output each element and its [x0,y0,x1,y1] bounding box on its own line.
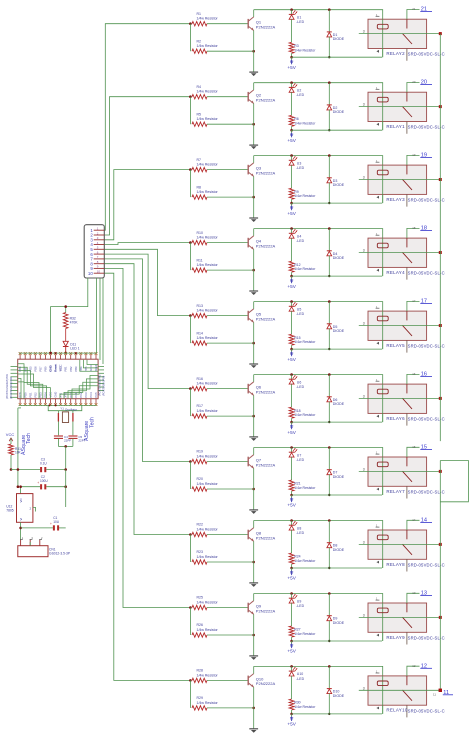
svg-text:3: 3 [363,394,365,398]
relay K1 coil [377,24,388,29]
ground ch5 [249,364,258,368]
relay K8 coil pin bottom tick [376,561,379,564]
relay K1 NO pin [406,49,408,61]
wire 7805 VO stub [20,487,22,494]
svg-text:R25: R25 [197,596,203,600]
relay K5 pin 1 tick [376,305,380,309]
node ch7 LED top [290,446,293,449]
wire ch8 collector [253,521,255,528]
relay K3 coil [377,170,388,175]
wire ch9 R26 drop [189,608,191,636]
svg-text:VI: VI [19,518,23,521]
+5V ch3 [287,203,296,216]
svg-text:SRD-05VDC-SL-C: SRD-05VDC-SL-C [408,563,445,568]
wire Y1 left leg [57,411,59,436]
wire ch8 net stub [407,520,420,530]
relay K10 body [368,676,427,705]
resistor R9 [289,188,316,199]
transistor Q1 [248,17,275,31]
resistor R3 [289,42,316,53]
svg-text:+5V: +5V [287,211,296,216]
node 7805 top [19,485,22,488]
svg-text:DIODE: DIODE [333,110,345,114]
capacitor C1 [50,516,60,531]
connector pin 2 [90,231,104,237]
svg-text:SRD-05VDC-SL-C: SRD-05VDC-SL-C [408,417,445,422]
diode D3 [327,178,345,187]
node ch6 bus junction [439,397,442,400]
wire ch9 LED stub [291,594,293,599]
diode D5 [327,324,345,333]
wire U11 top pin bus [19,352,97,354]
svg-text:RELAY4: RELAY4 [386,270,405,275]
wire ch2 input from connector pin 2 [104,97,190,235]
svg-text:R2: R2 [197,39,202,43]
node R32 top [64,305,67,308]
relay K10 pin 1 tick [376,670,380,674]
wire ch7 relay common [359,470,441,472]
wire ch3 R8 drop [189,170,191,198]
svg-text:U6: U6 [297,380,302,384]
wire crystal gnd join [58,445,73,447]
relay K8 labels [386,562,444,568]
relay K1 coil pin bottom tick [376,50,379,53]
resistor R30 [289,699,316,710]
transistor Q6 [248,382,275,396]
svg-text:-LED: -LED [296,385,304,389]
node ch2 +5V junction [290,129,293,132]
relay K2 coil [377,97,388,102]
node ch4 +5V junction [290,275,293,278]
svg-text:18: 18 [412,226,416,230]
svg-text:SRD-05VDC-SL-C: SRD-05VDC-SL-C [408,198,445,203]
svg-text:10K: 10K [15,451,22,455]
resistor R27 [289,626,316,637]
wire ch3 net stub [407,155,420,165]
transistor Q4 [248,236,275,250]
resistor R2 [192,39,254,53]
resistor R21 [289,480,316,491]
wire ch8 diode stub bottom [328,548,330,568]
wire ch5 LED to R15 [291,311,293,334]
node ch8 emitter junction [252,561,255,564]
svg-text:PB2: PB2 [69,366,73,371]
wire ch2 relay common [359,106,441,108]
node ch8 input junction [189,533,192,536]
transistor Q8 [248,528,275,542]
relay K10 coil [377,681,388,686]
resistor R28 [192,669,248,683]
svg-text:PD1: PD1 [28,392,32,398]
wire ch2 LED to R6 [291,92,293,115]
wire ch9 coil return [292,640,382,642]
text ASquare Tech left [21,433,32,455]
wire CN1 pin2 hook [29,542,31,546]
svg-text:VCC: VCC [6,432,15,437]
pin 3 label ch2 [363,103,365,107]
wire ch1 diode stub top [328,10,330,32]
svg-text:P2N2222A: P2N2222A [256,535,276,540]
transistor Q2 [248,90,275,104]
wire ch1 LED to R3 [291,19,293,42]
node ch4 diode bottom [328,275,330,277]
node ch2 diode top [328,81,331,84]
U11 left pins [11,367,18,398]
net label 19 [420,153,432,159]
wire ch7 emitter [253,468,255,509]
wire crystal to rail [65,446,67,469]
svg-text:-LED: -LED [296,166,304,170]
svg-text:1/4w Resistor: 1/4w Resistor [294,705,316,709]
diode D9 [327,616,345,625]
svg-text:1/4w Resistor: 1/4w Resistor [197,601,219,605]
svg-text:1/4w Resistor: 1/4w Resistor [294,194,316,198]
relay K4 NO pin [406,267,408,279]
wire ch7 LED to R21 [291,457,293,480]
wire R31 bottom [10,455,12,470]
svg-text:U1: U1 [297,16,302,20]
svg-text:-LED: -LED [296,458,304,462]
+5V ch6 [287,422,296,435]
pin 3 label ch1 [363,30,365,34]
node ch4 emitter junction [252,269,255,272]
relay K9 coil wire [382,603,384,641]
node ch9 bus junction [439,616,442,619]
svg-text:R21: R21 [294,482,300,486]
U11 right pin labels [99,374,106,396]
pin 3 label ch8 [363,540,365,544]
relay K8 switch contact [402,530,412,555]
node ch9 LED top [290,592,293,595]
transistor Q10 [248,674,275,688]
ground ch4 [249,291,258,295]
svg-text:R3: R3 [294,44,299,48]
wire ch8 diode stub top [328,521,330,543]
svg-text:DIODE: DIODE [333,694,345,698]
relay K9 pin 1 tick [376,597,380,601]
wire ch8 LED to R24 [291,530,293,553]
svg-text:1/4w Resistor: 1/4w Resistor [294,340,316,344]
node ch6 LED top [290,373,293,376]
wire R32 to D11 [65,329,67,342]
wire ch1 relay common [359,33,441,35]
svg-text:U9: U9 [297,599,302,603]
wire ch4 diode stub top [328,229,330,251]
wire ch7 input from connector pin 7 [104,259,190,462]
relay K7 body [368,457,427,486]
diode D1 [327,32,345,41]
resistor R10 [192,231,248,245]
relay K2 labels [386,124,444,130]
wire ch1 emitter [253,31,255,72]
wire relay bus lower segment [439,461,441,691]
node U11 bottom pin junctions [49,404,57,406]
svg-text:R27: R27 [294,628,300,632]
wire D11 to U11 [65,347,67,353]
relay K8 coil [377,535,388,540]
wire ch9 LED to R27 [291,603,293,626]
wire ch6 diode stub top [328,375,330,397]
relay K8 pin 1 tick [376,524,380,528]
wire ch1 collector rail [254,10,383,58]
wire U11 to VCC rail [18,408,21,487]
relay K8 coil wire [382,530,384,568]
node ch9 diode bottom [328,640,330,642]
svg-text:1/4w Resistor: 1/4w Resistor [197,190,219,194]
svg-text:1/4w Resistor: 1/4w Resistor [197,263,219,267]
relay K9 switch contact [402,603,412,628]
wire ch4 net stub [407,228,420,238]
wire ch2 diode stub bottom [328,110,330,130]
resistor R23 [192,550,254,564]
svg-text:1/4w Resistor: 1/4w Resistor [197,336,219,340]
net label 16 [420,371,432,377]
wire ch9 relay common [359,616,441,618]
node ch8 +5V junction [290,567,293,570]
pin 2 label ch4 [412,226,416,230]
diode D7 [327,470,345,479]
pin 3 label ch4 [363,249,365,253]
svg-text:+5V: +5V [287,357,296,362]
wire ch9 input from connector pin 9 [104,268,190,607]
relay K10 NO pin [406,705,408,717]
svg-text:PD7: PD7 [38,366,42,372]
svg-text:3: 3 [363,613,365,617]
relay K8 NO pin [406,559,408,571]
svg-text:XT1: XT1 [59,392,63,397]
connector pin 5 [90,246,104,252]
regulator U12 7805 [6,494,33,523]
svg-text:+5V: +5V [287,576,296,581]
node ch7 input junction [189,460,192,463]
resistor R19 [192,450,248,464]
wire right rail drop [65,470,67,508]
wire ch8 relay common [359,543,441,545]
node rail junctions upper [64,468,67,471]
node ch1 diode bottom [328,56,330,58]
svg-text:10: 10 [97,270,101,274]
svg-text:U10: U10 [297,672,303,676]
node ch6 emitter junction [252,415,255,418]
resistor R17 [192,404,254,418]
wire 7805 GND pin [33,508,36,512]
relay K6 NO pin [406,413,408,425]
svg-text:RELAY8: RELAY8 [386,562,405,567]
pin 2 label ch6 [412,372,416,376]
wire ch1 diode stub bottom [328,37,330,57]
wire ch10 LED to R30 [291,676,293,699]
LED U8 [289,521,305,535]
node ch7 diode bottom [328,494,330,496]
pin 3 label ch7 [363,467,365,471]
net label 15 [420,444,432,450]
svg-text:SRD-05VDC-SL-C: SRD-05VDC-SL-C [408,636,445,641]
node ch1 +5V junction [290,56,293,59]
wire +5 rail upper [11,469,66,471]
svg-text:RELAY5: RELAY5 [386,343,405,348]
svg-text:DIODE: DIODE [333,329,345,333]
LED U4 [289,229,305,243]
wire relay bus upper segment [439,34,441,442]
+5V ch7 [287,495,296,508]
wire ch9 emitter [253,614,255,655]
wire ch5 diode stub top [328,302,330,324]
wire ch9 collector rail [254,594,383,642]
svg-text:P2N2222A: P2N2222A [256,316,276,321]
svg-text:R1: R1 [197,12,202,16]
svg-text:-LED: -LED [296,677,304,681]
relay K2 coil pin bottom tick [376,123,379,126]
svg-text:U7: U7 [297,453,302,457]
node ch4 input junction [189,241,192,244]
svg-text:R17: R17 [197,404,203,408]
wire ch7 coil return [292,494,382,496]
wire R32 stub [65,307,67,313]
wire ch5 diode stub bottom [328,329,330,349]
svg-text:DIODE: DIODE [333,475,345,479]
pin 2 label ch10 [412,664,416,668]
LED U7 [289,448,305,462]
ground ch10 [249,729,258,733]
wire ch6 collector [253,375,255,382]
resistor R31 [9,444,22,455]
wire C5 bottom [72,438,74,446]
wire ch4 collector [253,229,255,236]
wire ch3 emitter [253,176,255,217]
svg-text:P2N2222A: P2N2222A [256,25,276,30]
svg-text:PB1: PB1 [64,366,68,371]
svg-text:16: 16 [412,372,416,376]
wire ch8 emitter [253,541,255,582]
svg-text:1/4w Resistor: 1/4w Resistor [197,701,219,705]
wire ch3 relay common [359,179,441,181]
connector J1 body [84,225,104,278]
pin 3 label ch5 [363,322,365,326]
node ch6 diode bottom [328,421,330,423]
wire ch6 coil return [292,421,382,423]
relay K7 NO pin [406,486,408,498]
svg-text:3: 3 [363,686,365,690]
node ch10 input junction [189,679,192,682]
relay K6 coil [377,389,388,394]
relay K6 switch contact [402,384,412,409]
+5V ch5 [287,349,296,362]
svg-text:U4: U4 [297,234,302,238]
svg-text:1/4w Resistor: 1/4w Resistor [197,90,219,94]
node ch10 LED top [290,665,293,668]
wire ch6 collector rail [254,375,383,423]
node D11 junction [64,352,67,355]
relay K10 switch contact [402,676,412,701]
relay K6 labels [386,416,444,422]
node crystal bottom [64,445,67,448]
wire ch5 input from connector pin 5 [104,249,190,315]
wire ch1 net stub [407,10,420,20]
svg-text:R30: R30 [294,701,300,705]
node ch7 bus junction [439,470,442,473]
relay K2 NO pin [406,122,408,134]
pin 2 label ch8 [412,518,416,522]
svg-text:PC3: PC3 [84,392,88,398]
node ch6 input junction [189,387,192,390]
wire ch4 diode stub bottom [328,256,330,276]
capacitor C5 [68,435,85,442]
resistor R20 [192,477,254,491]
node ch5 input junction [189,314,192,317]
resistor R7 [192,158,248,172]
svg-text:3: 3 [363,103,365,107]
wire ch10 emitter [253,687,255,728]
node ch1 diode top [328,8,331,11]
node ch4 LED top [290,227,293,230]
relay K7 coil pin bottom tick [376,488,379,491]
svg-text:2: 2 [41,536,43,540]
connector pin 9 [90,265,104,271]
svg-text:10: 10 [88,271,93,276]
svg-text:0.1U: 0.1U [40,461,47,465]
relay K3 body [368,165,427,194]
relay K10 coil pin bottom tick [376,707,379,710]
wire ch2 R6 bottom [291,126,293,130]
wire ch4 R11 drop [189,243,191,271]
svg-text:R26: R26 [197,623,203,627]
wire ch2 LED stub [291,83,293,88]
resistor R24 [289,553,316,564]
wire ch9 diode stub top [328,594,330,616]
wire ch2 net stub [407,83,420,93]
svg-text:1/4w Resistor: 1/4w Resistor [294,559,316,563]
LED D11 [63,341,80,350]
relay K5 body [368,311,427,340]
U11 left pin labels [6,374,13,399]
node ch3 +5V junction [290,202,293,205]
net label 11 [433,690,453,697]
wire Y1 bracket [48,405,82,410]
wire ch5 emitter [253,322,255,363]
relay K5 switch contact [402,311,412,336]
LED U3 [289,156,305,170]
svg-text:+: + [37,481,39,485]
svg-text:R8: R8 [197,185,202,189]
microcontroller U11 body [18,359,98,399]
node ch10 diode top [328,665,331,668]
svg-text:PD6: PD6 [33,366,37,372]
svg-text:DIODE: DIODE [333,402,345,406]
U11 bottom pins [18,392,98,406]
resistor R4 [192,85,248,99]
svg-text:-LED: -LED [296,20,304,24]
pin 2 label ch3 [412,153,416,157]
svg-text:R14: R14 [197,331,203,335]
+5V ch4 [287,276,296,289]
svg-text:100U: 100U [40,479,48,483]
svg-text:R13: R13 [197,304,203,308]
svg-text:RELAY2: RELAY2 [386,51,405,56]
svg-text:3: 3 [363,176,365,180]
LED U2 [289,83,305,97]
wire ch5 relay common [359,325,441,327]
svg-text:RELAY6: RELAY6 [386,416,405,421]
wire ch3 diode stub bottom [328,183,330,203]
svg-text:3: 3 [363,322,365,326]
node ch7 +5V junction [290,494,293,497]
wire ch10 LED stub [291,666,293,671]
svg-text:1/4w Resistor: 1/4w Resistor [197,555,219,559]
svg-text:P2N2222A: P2N2222A [256,243,276,248]
resistor R22 [192,523,248,537]
svg-text:14: 14 [412,518,416,522]
transistor Q3 [248,163,275,177]
